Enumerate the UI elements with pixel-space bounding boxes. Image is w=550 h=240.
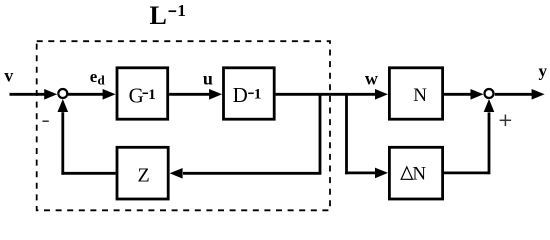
wire v input [10, 89, 58, 100]
wire Z output to S1 (feedback) [58, 99, 116, 175]
svg-text:u: u [203, 69, 213, 89]
wire DeltaN output to S2 [443, 99, 495, 174]
label u [203, 69, 213, 89]
node tap to DeltaN branch [345, 94, 348, 174]
svg-text:w: w [365, 68, 378, 88]
block Z [117, 147, 168, 199]
svg-text:L: L [150, 1, 167, 30]
label w [365, 68, 378, 88]
summing junction S2 [485, 89, 494, 98]
label plus at S2 [500, 115, 512, 127]
dashed boundary box of inverse system L^-1 [37, 41, 330, 210]
wire N to S2 [443, 89, 484, 100]
block N [389, 68, 442, 119]
block DeltaN [389, 147, 442, 199]
svg-text:N: N [413, 85, 427, 106]
svg-text:y: y [539, 62, 548, 81]
block G^-1 [117, 68, 168, 119]
label e_d [90, 67, 106, 88]
label v (input signal) [4, 65, 13, 85]
wire tap to Z input [170, 168, 322, 179]
label minus at S1 [42, 120, 48, 122]
label L^-1 [150, 1, 186, 30]
svg-text:N: N [412, 163, 426, 184]
node tap to Z feedback [319, 94, 322, 173]
svg-text:d: d [98, 73, 106, 88]
svg-text:v: v [4, 65, 13, 85]
summing junction S1 [58, 89, 67, 98]
wire tap to DeltaN input [345, 168, 388, 179]
wire S1 to G [68, 89, 116, 100]
svg-text:1: 1 [254, 86, 262, 102]
label y (output signal) [539, 62, 548, 81]
svg-text:G: G [129, 84, 144, 108]
block D^-1 [224, 68, 275, 119]
wire G to D [169, 89, 222, 100]
svg-text:1: 1 [148, 87, 156, 103]
svg-text:D: D [233, 83, 248, 107]
svg-text:1: 1 [177, 1, 186, 20]
svg-text:Z: Z [138, 164, 150, 186]
wire S2 to y output [495, 89, 545, 100]
wire D to N (crosses dashed boundary) [276, 89, 388, 100]
